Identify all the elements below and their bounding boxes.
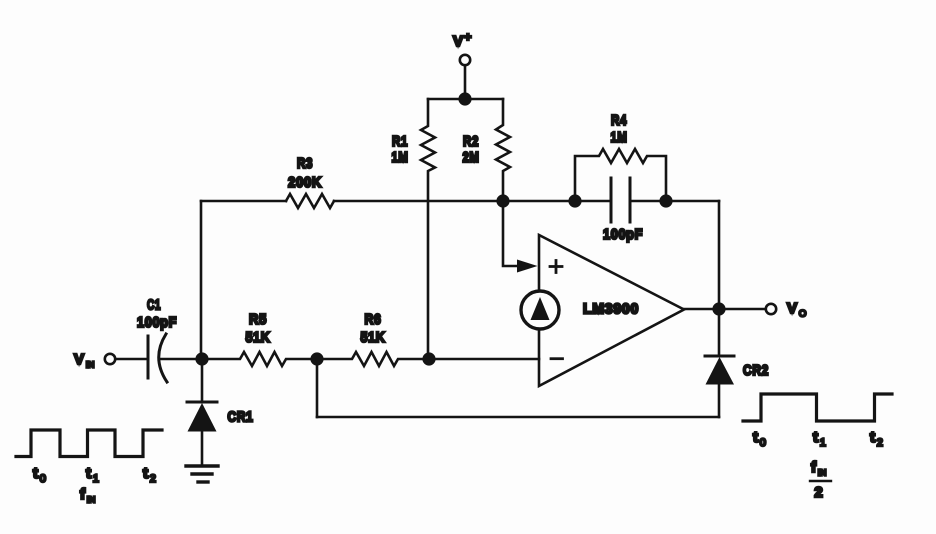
svg-text:fIN: fIN [811, 459, 826, 478]
arrowhead noninverting input [517, 260, 538, 273]
resistor R3 [286, 194, 334, 208]
svg-text:CR2: CR2 [743, 362, 769, 379]
svg-text:R4: R4 [611, 112, 627, 129]
svg-text:V+: V+ [453, 30, 471, 50]
wire node A to capacitor C2 [503, 200, 611, 203]
capacitor C1 curved plate [159, 334, 167, 382]
svg-text:R1: R1 [392, 133, 408, 150]
capacitor C2 plates [611, 178, 630, 222]
svg-text:t0: t0 [753, 429, 766, 449]
capacitor C1 flat plate [147, 336, 150, 378]
resistor R6 [317, 352, 429, 366]
wire feedback bottom horizontal [317, 416, 719, 419]
wire input node up to R3 [200, 201, 203, 359]
current source arrow [531, 297, 550, 320]
svg-text:100pF: 100pF [603, 226, 643, 243]
diode CR1 [187, 359, 217, 465]
svg-text:t1: t1 [813, 429, 826, 449]
svg-text:100pF: 100pF [137, 314, 177, 331]
svg-text:VO: VO [787, 300, 806, 320]
resistor R5 [202, 352, 317, 366]
wire output to Vo terminal [725, 308, 766, 311]
diode CR2 [705, 309, 734, 417]
svg-text:2: 2 [814, 484, 823, 501]
wire Vin to C1 [116, 358, 149, 361]
svg-text:LM3900: LM3900 [583, 301, 639, 318]
label minus input [551, 357, 563, 360]
terminal Vin [105, 354, 115, 364]
resistor R1 [421, 99, 435, 358]
wire V+ terminal to rail [464, 66, 467, 100]
terminal Vo [766, 304, 776, 314]
resistor R4 [575, 149, 666, 201]
svg-text:fIN: fIN [80, 486, 95, 505]
svg-text:1M: 1M [611, 129, 628, 146]
junction R4 left [568, 194, 581, 207]
svg-text:t2: t2 [143, 465, 156, 485]
junction input node [195, 352, 208, 365]
wire capacitor to output rail corner [630, 200, 719, 203]
svg-text:200K: 200K [288, 174, 322, 191]
wire V+ rail horizontal [428, 98, 503, 101]
wire feedback riser to R5-R6 node [316, 359, 319, 417]
svg-text:t1: t1 [86, 465, 99, 485]
junction inverting node [422, 352, 435, 365]
junction node A [496, 194, 509, 207]
wire noninverting branch [503, 201, 519, 266]
svg-text:51K: 51K [246, 329, 271, 346]
label plus input [550, 261, 562, 273]
svg-text:R5: R5 [249, 311, 267, 328]
terminal V+ [460, 55, 470, 65]
wire C1 to input node [159, 358, 202, 361]
fraction bar f_IN/2 [810, 480, 831, 482]
wire R3 left lead [201, 200, 286, 203]
waveform output f_IN/2 [743, 394, 892, 421]
op-amp U1 LM3900 triangle [539, 235, 684, 386]
ground [186, 466, 218, 482]
junction R4 right [659, 194, 672, 207]
resistor R2 [496, 99, 510, 201]
svg-text:t0: t0 [33, 465, 46, 485]
svg-text:C1: C1 [147, 297, 161, 314]
svg-text:R6: R6 [365, 311, 382, 328]
svg-text:1M: 1M [392, 149, 409, 166]
svg-text:CR1: CR1 [228, 409, 254, 426]
svg-text:R2: R2 [463, 133, 479, 150]
junction output node [712, 302, 725, 315]
svg-text:51K: 51K [361, 329, 386, 346]
svg-text:t2: t2 [870, 429, 883, 449]
svg-text:R3: R3 [297, 155, 313, 172]
svg-text:VIN: VIN [74, 351, 94, 370]
wire op-amp output [684, 308, 714, 311]
wire R3 to node A [334, 200, 503, 203]
waveform input f_IN [16, 430, 162, 457]
wire inverting input [429, 358, 539, 361]
current source symbol [521, 291, 559, 329]
svg-text:2M: 2M [463, 149, 480, 166]
junction R5-R6 node [310, 352, 323, 365]
junction V+ rail [458, 92, 471, 105]
wire output rail vertical [718, 201, 721, 309]
